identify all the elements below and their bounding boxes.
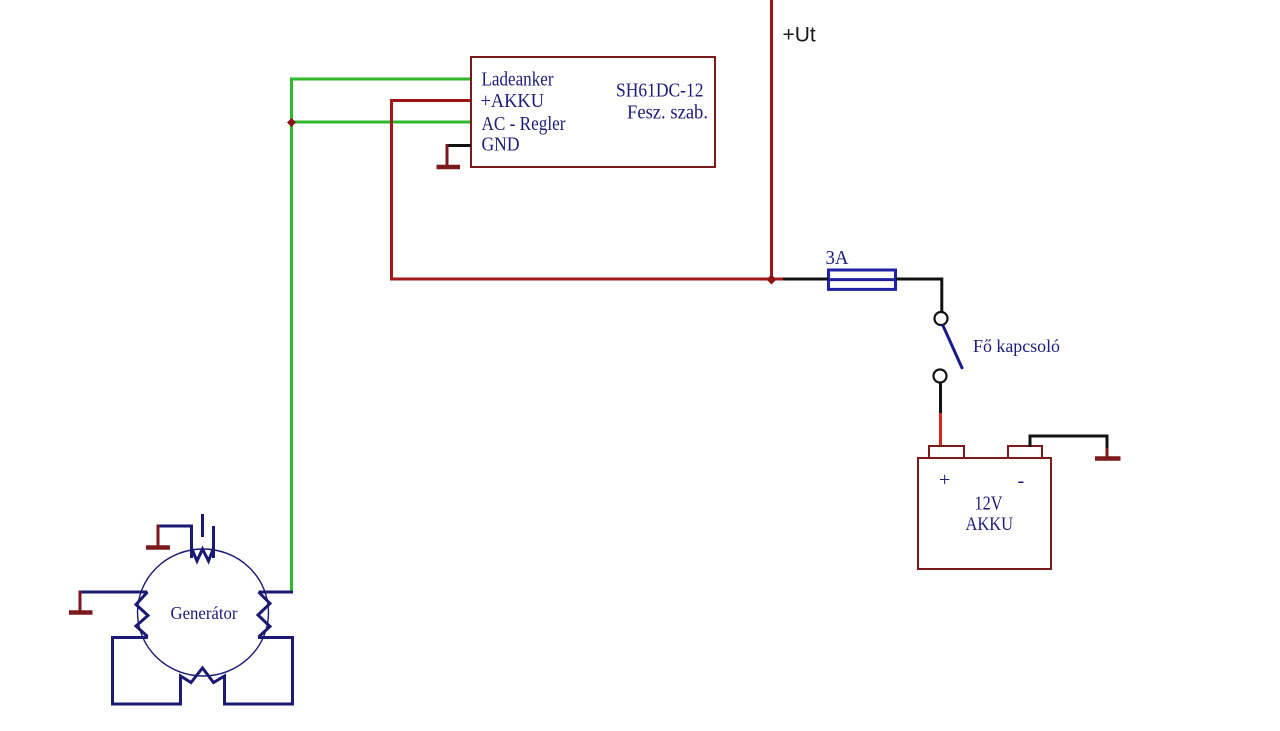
svg-text:AKKU: AKKU <box>966 514 1014 535</box>
wire: dark red horizontal bus to +Ut node <box>390 278 784 281</box>
battery B1 12V AKKU box <box>918 458 1051 569</box>
svg-text:Fő kapcsoló: Fő kapcsoló <box>973 336 1060 356</box>
generator coil: right zigzag <box>258 592 270 637</box>
node: junction dot at +Ut bus <box>767 275 777 285</box>
svg-text:Generátor: Generátor <box>171 603 238 623</box>
generator G1 body circle <box>138 549 269 676</box>
generator field winding loops with bottom W zigzag <box>113 638 293 705</box>
regulator U1 box SH61DC-12 <box>471 57 715 167</box>
svg-text:12V: 12V <box>975 493 1003 515</box>
wire: black from junction to fuse <box>783 278 828 281</box>
svg-text:GND: GND <box>482 134 520 156</box>
wire: black from - terminal to ground <box>1030 436 1107 450</box>
battery - terminal tab <box>1008 446 1042 458</box>
fuse F1 3A <box>827 270 897 289</box>
svg-text:3A: 3A <box>826 247 850 269</box>
wire: green vertical bus <box>290 78 293 592</box>
wire: navy right terminal to green bus <box>259 591 294 594</box>
wire: navy from brush to top ground <box>158 525 193 528</box>
ground: battery minus ground symbol <box>1095 448 1121 459</box>
wire: black below switch <box>939 383 942 415</box>
svg-text:+Ut: +Ut <box>783 24 816 47</box>
svg-text:+: + <box>939 469 950 491</box>
wire: black GND pin stub <box>447 144 471 147</box>
wire: green to AC - Regler pin <box>292 121 472 124</box>
svg-text:Ladeanker: Ladeanker <box>482 69 554 91</box>
node: junction dot on green bus <box>287 118 296 127</box>
ground: generator left ground symbol <box>69 591 93 613</box>
wire: bright red to battery + terminal <box>939 413 942 446</box>
svg-text:AC - Regler: AC - Regler <box>482 113 566 135</box>
generator brush: middle stub <box>201 514 204 537</box>
generator coil: left zigzag <box>136 592 148 637</box>
wire: navy left terminal <box>80 591 148 594</box>
generator brush: left vertical <box>190 526 193 558</box>
generator coil: top W zigzag <box>192 548 214 561</box>
wire: black from fuse to switch <box>896 279 942 312</box>
svg-text:Fesz. szab.: Fesz. szab. <box>627 102 708 124</box>
switch S1 Fő kapcsoló <box>934 312 963 383</box>
wire: dark red +Ut vertical <box>770 0 773 279</box>
svg-text:-: - <box>1018 470 1025 492</box>
ground: regulator GND symbol <box>437 144 461 167</box>
svg-text:SH61DC-12: SH61DC-12 <box>616 80 704 102</box>
ground: generator top ground symbol <box>146 525 170 548</box>
battery + terminal tab <box>929 446 964 458</box>
generator brush: right vertical <box>212 526 215 558</box>
wire: dark red +AKKU pin feed <box>392 99 472 102</box>
wire: dark red vertical from +AKKU <box>390 99 393 278</box>
wire: green from Ladeanker pin <box>292 78 472 81</box>
svg-text:+AKKU: +AKKU <box>481 90 545 112</box>
